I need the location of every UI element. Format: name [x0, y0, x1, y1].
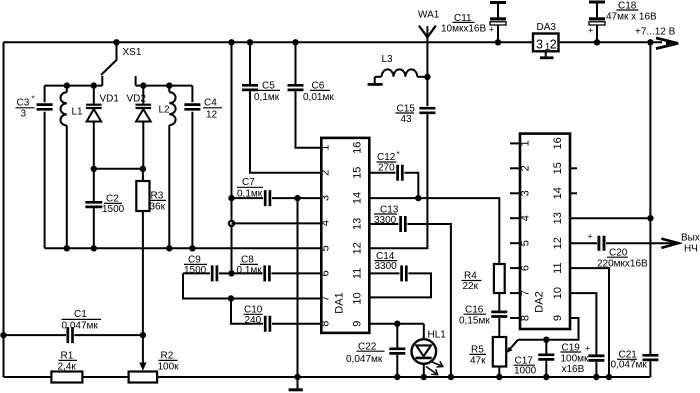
- wire top rail right of DA3: [559, 41, 663, 43]
- svg-text:9: 9: [352, 321, 364, 327]
- node pin3 row junction: [228, 195, 234, 201]
- svg-text:16: 16: [552, 137, 564, 149]
- inductor L2: [159, 82, 176, 248]
- capacitor C12 on DA1 pin15: [369, 150, 421, 201]
- capacitor C17: [514, 340, 555, 380]
- svg-text:2: 2: [520, 165, 532, 171]
- wire DA2 pin11 down: [570, 268, 612, 380]
- svg-text:C3: C3: [17, 98, 30, 109]
- wire pin6 row to pin7 row left link: [183, 273, 321, 298]
- svg-text:10мкх16В: 10мкх16В: [441, 23, 486, 34]
- svg-text:100к: 100к: [158, 362, 180, 373]
- svg-text:DA3: DA3: [537, 22, 557, 33]
- switch XS1: [101, 39, 142, 86]
- svg-text:НЧ: НЧ: [684, 243, 698, 254]
- wire left border vertical: [3, 42, 5, 377]
- svg-text:*: *: [32, 95, 35, 104]
- svg-text:10: 10: [552, 287, 564, 299]
- svg-text:+7...12 В: +7...12 В: [635, 27, 676, 38]
- svg-text:L2: L2: [159, 105, 171, 116]
- svg-text:36к: 36к: [150, 202, 166, 213]
- pin numbers DA1 right 16-9: [352, 142, 364, 327]
- varactor diode VD1: [86, 82, 119, 168]
- capacitor C2: [85, 169, 124, 252]
- svg-text:240: 240: [245, 315, 262, 326]
- svg-text:0,047мк: 0,047мк: [62, 321, 99, 332]
- svg-text:3: 3: [536, 37, 543, 51]
- inductor L1: [60, 82, 83, 248]
- LED HL1: [412, 324, 447, 380]
- svg-text:+: +: [588, 26, 593, 36]
- svg-text:43: 43: [401, 114, 413, 125]
- svg-text:16: 16: [352, 142, 364, 154]
- svg-text:3300: 3300: [375, 261, 398, 272]
- svg-text:DA1: DA1: [334, 292, 346, 313]
- capacitor C7 on DA1 pin3 row: [232, 177, 322, 206]
- svg-text:15: 15: [352, 167, 364, 179]
- wire bias column x=231.5 top rail to pin6 row: [228, 39, 234, 273]
- svg-text:47мк х 16В: 47мк х 16В: [606, 11, 657, 22]
- svg-text:7: 7: [520, 290, 532, 296]
- node supply arrow +7...12V: [635, 27, 679, 49]
- svg-text:14: 14: [552, 187, 564, 199]
- svg-text:4: 4: [320, 220, 332, 226]
- svg-text:1500: 1500: [102, 204, 125, 215]
- svg-text:2: 2: [550, 37, 557, 51]
- svg-text:6: 6: [520, 265, 532, 271]
- wire DA1 pin4 row: [232, 222, 322, 224]
- svg-text:+: +: [588, 232, 593, 242]
- capacitor C20 electrolytic on DA2 pin12 output: [570, 232, 673, 270]
- antenna WA1: [418, 10, 440, 43]
- svg-text:Вых: Вых: [681, 233, 700, 244]
- svg-text:1: 1: [520, 140, 532, 146]
- svg-text:11: 11: [552, 262, 564, 273]
- svg-text:XS1: XS1: [123, 47, 142, 58]
- wire tank row 2: [136, 85, 193, 87]
- wire DA2 pin9 to R5 wiper: [518, 318, 579, 343]
- capacitor C4: [184, 86, 222, 249]
- svg-text:3: 3: [520, 190, 532, 196]
- node output arrow: [661, 233, 699, 255]
- svg-text:0,15мк: 0,15мк: [459, 316, 490, 327]
- capacitor C22: [346, 324, 405, 380]
- op-amp U1 IC DA1: [321, 138, 369, 333]
- wire DA1 pin9 row: [369, 321, 423, 327]
- wire right vertical +V column: [649, 42, 651, 377]
- svg-text:+: +: [489, 25, 494, 35]
- resistor R4: [462, 264, 505, 311]
- capacitor C13 on DA1 pin13: [369, 205, 454, 381]
- svg-text:C4: C4: [204, 98, 217, 109]
- svg-text:8: 8: [520, 315, 532, 321]
- pin numbers DA2 left 1-8: [520, 140, 532, 321]
- svg-text:3300: 3300: [374, 215, 397, 226]
- svg-text:100мк: 100мк: [561, 354, 590, 365]
- svg-text:12: 12: [552, 237, 564, 249]
- svg-text:+: +: [585, 344, 590, 354]
- svg-text:0,1мк: 0,1мк: [237, 265, 263, 276]
- capacitor C8 on DA1 pin6 row: [232, 255, 322, 282]
- wire DA1 pin14 row to R4 chain: [369, 198, 499, 264]
- svg-text:*: *: [397, 150, 400, 159]
- svg-text:10: 10: [352, 292, 364, 304]
- svg-text:8: 8: [320, 321, 332, 327]
- wire VD1-VD2 junction row: [91, 166, 146, 172]
- capacitor C6: [288, 39, 335, 148]
- svg-text:HL1: HL1: [428, 330, 447, 341]
- capacitor C9 on DA1 pin6 row: [183, 255, 232, 282]
- wire DA2 pin13 to +V column: [570, 215, 654, 221]
- svg-text:47к: 47к: [470, 356, 486, 367]
- svg-text:L3: L3: [382, 54, 394, 65]
- pin stubs DA2 left: [510, 143, 520, 318]
- svg-text:13: 13: [552, 212, 564, 224]
- capacitor C15: [369, 104, 435, 249]
- capacitor C5: [242, 39, 321, 173]
- capacitor C16: [459, 305, 507, 338]
- svg-text:3: 3: [320, 195, 332, 201]
- varactor diode VD2: [127, 82, 152, 168]
- svg-text:0,047мк: 0,047мк: [346, 354, 383, 365]
- svg-text:4: 4: [520, 215, 532, 221]
- node pin4 row junction ring: [229, 221, 234, 226]
- svg-text:12: 12: [206, 110, 218, 121]
- svg-text:WA1: WA1: [418, 10, 440, 21]
- node pin7 row junction: [228, 295, 234, 301]
- capacitor C11 electrolytic: [441, 3, 506, 46]
- svg-text:1500: 1500: [184, 265, 207, 276]
- svg-text:1000: 1000: [514, 366, 537, 377]
- voltage regulator DA3: [533, 22, 559, 53]
- capacitor C21 on +V column: [611, 350, 659, 371]
- resistor R3: [136, 169, 166, 335]
- inductor L3: [368, 54, 431, 84]
- svg-text:7: 7: [320, 295, 332, 301]
- svg-text:х16В: х16В: [562, 364, 585, 375]
- svg-text:R4: R4: [464, 271, 477, 282]
- svg-text:14: 14: [352, 192, 364, 204]
- resistor R1: [51, 351, 82, 383]
- svg-text:DA2: DA2: [534, 291, 546, 312]
- svg-text:9: 9: [552, 315, 564, 321]
- op-amp U2 IC DA2: [520, 134, 570, 329]
- ground: [289, 374, 303, 390]
- potentiometer R2: [129, 335, 180, 382]
- wire top rail left of DA3: [4, 41, 534, 43]
- svg-text:11: 11: [352, 268, 364, 279]
- svg-text:VD2: VD2: [127, 94, 147, 105]
- svg-text:1: 1: [320, 145, 332, 151]
- wire tank row 1: [45, 85, 103, 87]
- wire WA1 column: [426, 42, 428, 106]
- wire bottom rail: [4, 376, 651, 378]
- svg-text:0,01мк: 0,01мк: [303, 92, 334, 103]
- svg-text:VD1: VD1: [100, 94, 120, 105]
- svg-text:270: 270: [378, 162, 395, 173]
- svg-text:12: 12: [352, 242, 364, 254]
- svg-text:0,1мк: 0,1мк: [237, 189, 263, 200]
- svg-text:2: 2: [320, 170, 332, 176]
- svg-text:L1: L1: [72, 107, 84, 118]
- svg-text:5: 5: [520, 240, 532, 246]
- svg-text:13: 13: [352, 218, 364, 230]
- wire ground column from pin3 row: [294, 195, 300, 377]
- ground of DA3: [540, 51, 554, 58]
- pin numbers DA2 right 16-9: [552, 137, 564, 321]
- capacitor C1: [0, 309, 146, 343]
- capacitor C18 electrolytic: [588, 1, 657, 46]
- svg-text:6: 6: [320, 270, 332, 276]
- node +V rail junction: [647, 39, 653, 45]
- svg-text:C1: C1: [74, 309, 87, 320]
- capacitor C10 on DA1 pin8 row: [231, 299, 321, 332]
- svg-text:22к: 22к: [463, 281, 479, 292]
- svg-text:3: 3: [21, 109, 27, 120]
- svg-text:2,4к: 2,4к: [58, 362, 77, 373]
- wire DA1 pin5 row: [45, 245, 322, 251]
- capacitor C14 on DA1 pin11 loop to pin10: [369, 251, 431, 297]
- svg-text:15: 15: [552, 162, 564, 174]
- svg-text:5: 5: [320, 245, 332, 251]
- svg-text:0,047мк: 0,047мк: [611, 359, 648, 370]
- svg-text:0,1мк: 0,1мк: [254, 92, 280, 103]
- potentiometer R5: [470, 337, 519, 380]
- capacitor C19 electrolytic on DA2 pin10: [561, 293, 605, 380]
- pin numbers DA1 left 1-8: [320, 145, 332, 327]
- node pin6 row junction: [228, 270, 234, 276]
- pin stubs DA2 right 15,14: [570, 168, 577, 193]
- capacitor C3: [16, 86, 53, 249]
- svg-text:C7: C7: [242, 177, 255, 188]
